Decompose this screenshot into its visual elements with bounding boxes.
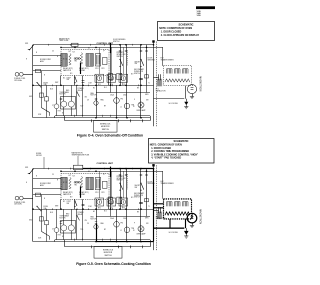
svg-text:TR2: TR2 bbox=[74, 184, 77, 186]
svg-text:INTERLOCK: INTERLOCK bbox=[100, 123, 111, 125]
svg-text:C5: C5 bbox=[52, 174, 54, 176]
svg-text:H1: H1 bbox=[93, 211, 95, 213]
svg-text:R1 C2: R1 C2 bbox=[63, 58, 67, 60]
svg-text:N: N bbox=[36, 176, 37, 178]
svg-text:D1: D1 bbox=[88, 171, 90, 173]
svg-text:BLK: BLK bbox=[50, 88, 53, 90]
svg-text:POWER: POWER bbox=[78, 212, 85, 214]
svg-text:RY3: RY3 bbox=[102, 68, 105, 70]
svg-text:C9: C9 bbox=[87, 99, 89, 101]
svg-text:MOTOR: MOTOR bbox=[60, 217, 67, 219]
svg-text:GRN: GRN bbox=[145, 218, 148, 220]
svg-text:H.V. DIODE: H.V. DIODE bbox=[169, 232, 179, 234]
svg-text:SWITCH: SWITCH bbox=[102, 129, 110, 131]
svg-text:E: E bbox=[26, 58, 27, 60]
svg-text:2. COOKING TIME PROGRAMMED: 2. COOKING TIME PROGRAMMED bbox=[151, 150, 189, 153]
svg-text:SENSING: SENSING bbox=[148, 183, 156, 185]
svg-text:RY3: RY3 bbox=[102, 192, 105, 194]
svg-text:ON: ON bbox=[85, 96, 87, 98]
svg-text:E: E bbox=[26, 182, 27, 184]
svg-text:SCHEMATIC: SCHEMATIC bbox=[174, 139, 189, 143]
svg-text:WHT: WHT bbox=[55, 82, 58, 84]
svg-text:STOP: STOP bbox=[67, 201, 71, 203]
svg-text:DOOR SENSING: DOOR SENSING bbox=[113, 39, 126, 41]
svg-text:RY1: RY1 bbox=[98, 208, 101, 210]
svg-text:2. CLOCK APPEARS ON DISPLAY: 2. CLOCK APPEARS ON DISPLAY bbox=[161, 34, 200, 37]
svg-text:L1: L1 bbox=[120, 106, 122, 108]
svg-text:SWITCH: SWITCH bbox=[104, 255, 112, 257]
svg-text:Figure O-5. Oven Schematic-Coo: Figure O-5. Oven Schematic-Cooking Condi… bbox=[76, 262, 151, 266]
svg-text:NOTE: CONDITION OF OVEN: NOTE: CONDITION OF OVEN bbox=[150, 145, 182, 147]
svg-text:RY: RY bbox=[104, 229, 106, 231]
svg-text:CN-B: CN-B bbox=[123, 94, 127, 96]
svg-text:H.V. DIODE: H.V. DIODE bbox=[169, 103, 179, 105]
svg-text:TR2: TR2 bbox=[74, 61, 77, 63]
svg-text:MOTOR: MOTOR bbox=[91, 218, 98, 220]
svg-text:SCHEMATIC: SCHEMATIC bbox=[179, 23, 194, 27]
svg-text:SHORT: SHORT bbox=[135, 185, 141, 187]
svg-text:ON: ON bbox=[85, 220, 87, 222]
svg-text:SWITCH: SWITCH bbox=[134, 197, 141, 199]
svg-text:LVT: LVT bbox=[69, 51, 72, 53]
svg-text:F: F bbox=[134, 99, 135, 101]
svg-text:3. VARIABLE COOKING CONTROL “: 3. VARIABLE COOKING CONTROL “HIGH” bbox=[151, 153, 198, 156]
svg-text:MOTOR: MOTOR bbox=[60, 94, 67, 96]
svg-text:CONTROL UNIT: CONTROL UNIT bbox=[97, 163, 114, 165]
svg-text:FUSE: FUSE bbox=[44, 82, 48, 84]
svg-text:Figure O-4. Oven Schematic-Off: Figure O-4. Oven Schematic-Off Condition bbox=[77, 134, 143, 138]
svg-text:N: N bbox=[44, 198, 45, 200]
svg-text:INTERLOCK: INTERLOCK bbox=[134, 195, 144, 197]
svg-text:Q1: Q1 bbox=[103, 50, 105, 52]
svg-text:RY1: RY1 bbox=[98, 84, 101, 86]
svg-text:MAGNETRON: MAGNETRON bbox=[199, 209, 202, 224]
svg-text:120V 60Hz: 120V 60Hz bbox=[14, 80, 22, 82]
svg-text:MONITOR: MONITOR bbox=[104, 252, 113, 254]
svg-text:FILTER: FILTER bbox=[36, 155, 42, 157]
svg-text:INTERLOCK: INTERLOCK bbox=[103, 250, 114, 252]
svg-text:NOISE FILTER: NOISE FILTER bbox=[40, 183, 52, 185]
svg-text:MONITOR: MONITOR bbox=[101, 126, 110, 128]
svg-text:SHORT: SHORT bbox=[135, 61, 141, 63]
svg-text:INTERLOCK: INTERLOCK bbox=[117, 54, 127, 56]
svg-text:INTERLOCK: INTERLOCK bbox=[117, 178, 127, 180]
svg-text:1. DOOR CLOSED: 1. DOOR CLOSED bbox=[151, 148, 171, 150]
svg-text:NOISE FILTER: NOISE FILTER bbox=[40, 59, 52, 61]
svg-text:SWITCH: SWITCH bbox=[117, 180, 124, 182]
svg-text:TEMPERATURE FUSE: TEMPERATURE FUSE bbox=[72, 153, 90, 156]
svg-text:MOTOR: MOTOR bbox=[91, 95, 98, 97]
svg-text:F: F bbox=[134, 223, 135, 225]
svg-text:CAPACITOR: CAPACITOR bbox=[156, 89, 166, 92]
svg-text:120V 60Hz: 120V 60Hz bbox=[14, 204, 22, 206]
svg-text:POWER CORD: POWER CORD bbox=[14, 202, 26, 204]
svg-text:SWITCH: SWITCH bbox=[113, 41, 120, 43]
svg-text:MAGNETRON: MAGNETRON bbox=[199, 76, 202, 91]
svg-text:FUSE: FUSE bbox=[44, 206, 48, 208]
svg-text:C5: C5 bbox=[52, 50, 54, 52]
svg-text:N: N bbox=[36, 52, 37, 54]
svg-text:POWER: POWER bbox=[78, 88, 85, 90]
svg-text:4. “START” PAD TOUCHED: 4. “START” PAD TOUCHED bbox=[151, 157, 181, 160]
svg-text:R9: R9 bbox=[137, 88, 139, 90]
svg-text:STOP: STOP bbox=[67, 77, 71, 79]
svg-text:TEMP. FUSE: TEMP. FUSE bbox=[59, 40, 68, 42]
svg-text:R1 C2: R1 C2 bbox=[63, 182, 67, 184]
svg-text:R9: R9 bbox=[137, 211, 139, 213]
svg-text:D1: D1 bbox=[88, 47, 90, 49]
svg-text:INTERLOCK: INTERLOCK bbox=[134, 71, 144, 73]
svg-text:C9: C9 bbox=[87, 223, 89, 225]
svg-text:WHT: WHT bbox=[55, 206, 58, 208]
svg-text:N: N bbox=[44, 74, 45, 76]
svg-text:SWITCH: SWITCH bbox=[134, 73, 141, 75]
svg-text:CT: CT bbox=[52, 105, 54, 107]
svg-text:BLK: BLK bbox=[50, 212, 53, 214]
svg-text:CN-B: CN-B bbox=[123, 218, 127, 220]
svg-text:RY: RY bbox=[104, 105, 106, 107]
svg-text:POWER CORD: POWER CORD bbox=[14, 78, 26, 80]
svg-text:SW1: SW1 bbox=[25, 43, 28, 45]
svg-text:GRN: GRN bbox=[145, 94, 148, 96]
svg-text:SWITCH: SWITCH bbox=[117, 56, 124, 58]
svg-text:SENSING: SENSING bbox=[148, 59, 156, 61]
svg-text:T1: T1 bbox=[148, 82, 150, 84]
svg-text:CT: CT bbox=[52, 229, 54, 231]
svg-text:H1: H1 bbox=[93, 87, 95, 89]
svg-text:T1: T1 bbox=[148, 206, 150, 208]
svg-text:L1: L1 bbox=[120, 230, 122, 232]
svg-text:SW1: SW1 bbox=[25, 167, 28, 169]
svg-text:LVT: LVT bbox=[69, 175, 72, 177]
svg-text:Q1: Q1 bbox=[103, 174, 105, 176]
